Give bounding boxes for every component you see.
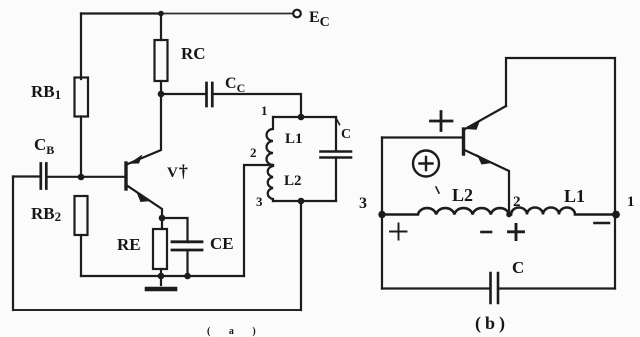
wire top rail faded to EC <box>161 13 293 15</box>
svg-text:CB: CB <box>34 135 54 157</box>
svg-text:L1: L1 <box>285 131 303 147</box>
resistor RB2 <box>75 196 88 235</box>
svg-text:L2: L2 <box>452 185 473 205</box>
wire emitter to RE <box>161 218 163 229</box>
node CE bottom <box>184 273 191 280</box>
wire left vertical feedback <box>12 177 14 311</box>
svg-text:(b): (b) <box>475 313 509 334</box>
wire CE bottom <box>186 250 188 276</box>
transistor (b) base bar <box>462 129 465 154</box>
terminal EC <box>293 10 301 18</box>
symbol (b) minus right <box>595 222 610 225</box>
wire (b) bottom rail left <box>382 287 489 289</box>
wire tap node2 <box>244 165 273 276</box>
svg-text:( a ): ( a ) <box>207 326 264 337</box>
wire (b) bottom rail right <box>499 287 615 289</box>
capacitor CE <box>172 242 202 250</box>
wire emitter ground rail <box>81 275 244 277</box>
wire RB1 bottom to base node <box>80 117 82 178</box>
symbol (b) plus mid <box>509 225 524 240</box>
transistor VT base bar <box>124 163 127 189</box>
wire RC bottom <box>160 81 162 94</box>
node (b) node1 <box>612 211 620 219</box>
symbol (b) plus left <box>390 224 407 240</box>
arrowhead (b) collector <box>466 121 481 130</box>
wire tank C top <box>335 117 337 151</box>
wire tank top <box>273 116 336 118</box>
svg-text:L2: L2 <box>284 173 302 189</box>
wire emitter branch to CE <box>162 218 188 242</box>
wire base row <box>47 176 124 178</box>
resistor RB1 <box>75 78 89 117</box>
wire (b) top rect <box>506 58 615 289</box>
node (b) node3 <box>378 211 385 218</box>
svg-text:2: 2 <box>513 194 521 210</box>
svg-text:EC: EC <box>309 9 330 30</box>
svg-text:C: C <box>341 127 351 142</box>
transistor VT emitter <box>127 186 162 219</box>
node emitter junction <box>159 215 166 222</box>
svg-text:C: C <box>512 258 524 277</box>
inductor (b) L2 <box>382 208 509 214</box>
wire RB1 top <box>80 14 82 80</box>
svg-text:V†: V† <box>167 161 188 181</box>
svg-text:RB2: RB2 <box>31 204 61 224</box>
inductor L2 <box>268 166 273 201</box>
wire collector to CC <box>161 93 205 95</box>
wire node3 drop <box>300 201 302 310</box>
symbol (b) tick <box>436 187 439 193</box>
svg-text:RE: RE <box>117 235 141 254</box>
resistor RC <box>155 40 168 81</box>
node tank top junction <box>298 114 305 121</box>
svg-text:RC: RC <box>181 44 206 63</box>
transistor (b) emitter <box>465 150 510 215</box>
wire tank bottom <box>273 200 336 202</box>
arrowhead collector VT <box>129 155 143 164</box>
wire RB2 bottom <box>80 235 82 276</box>
wire (b) collector diagonal <box>465 106 506 129</box>
symbol tick tank C label <box>337 119 340 125</box>
symbol (b) minus mid <box>482 231 492 234</box>
svg-text:RB1: RB1 <box>31 82 61 102</box>
svg-text:3: 3 <box>359 195 367 212</box>
capacitor (b) C <box>491 273 499 303</box>
wire RC top <box>160 14 162 41</box>
node collector junction <box>158 91 165 98</box>
svg-text:L1: L1 <box>564 186 585 206</box>
symbol (b) circled plus <box>413 151 439 177</box>
wire CC to tank <box>214 94 302 117</box>
wire (b) base row <box>382 136 462 138</box>
svg-text:1: 1 <box>627 194 635 210</box>
svg-text:2: 2 <box>250 145 257 160</box>
symbol (b) plus top <box>431 112 453 131</box>
node base junction <box>78 174 85 181</box>
wire tank C bottom <box>335 158 337 201</box>
wire (b) left vertical <box>381 138 383 289</box>
capacitor CB <box>41 164 47 189</box>
wire CB left <box>13 175 40 177</box>
inductor L1 <box>267 117 274 165</box>
svg-text:CE: CE <box>210 234 234 253</box>
wire RE bottom <box>160 269 162 276</box>
capacitor CC <box>207 83 213 106</box>
wire top rail (a) <box>81 12 161 14</box>
node RE bottom <box>158 273 165 280</box>
svg-text:CC: CC <box>225 75 245 95</box>
node RC-top junction <box>158 11 164 17</box>
svg-text:3: 3 <box>256 194 263 209</box>
svg-text:1: 1 <box>261 103 268 118</box>
capacitor C tank <box>321 152 352 158</box>
wire bottom feedback <box>13 309 301 311</box>
ground <box>160 276 162 285</box>
arrowhead (b) emitter <box>477 154 493 165</box>
wire collector vertical <box>127 94 162 165</box>
inductor (b) L1 <box>511 208 616 215</box>
node (b) tap2 <box>506 212 512 218</box>
resistor RE <box>153 229 167 269</box>
arrowhead emitter VT <box>136 191 151 202</box>
node tank bottom junction <box>298 198 305 205</box>
